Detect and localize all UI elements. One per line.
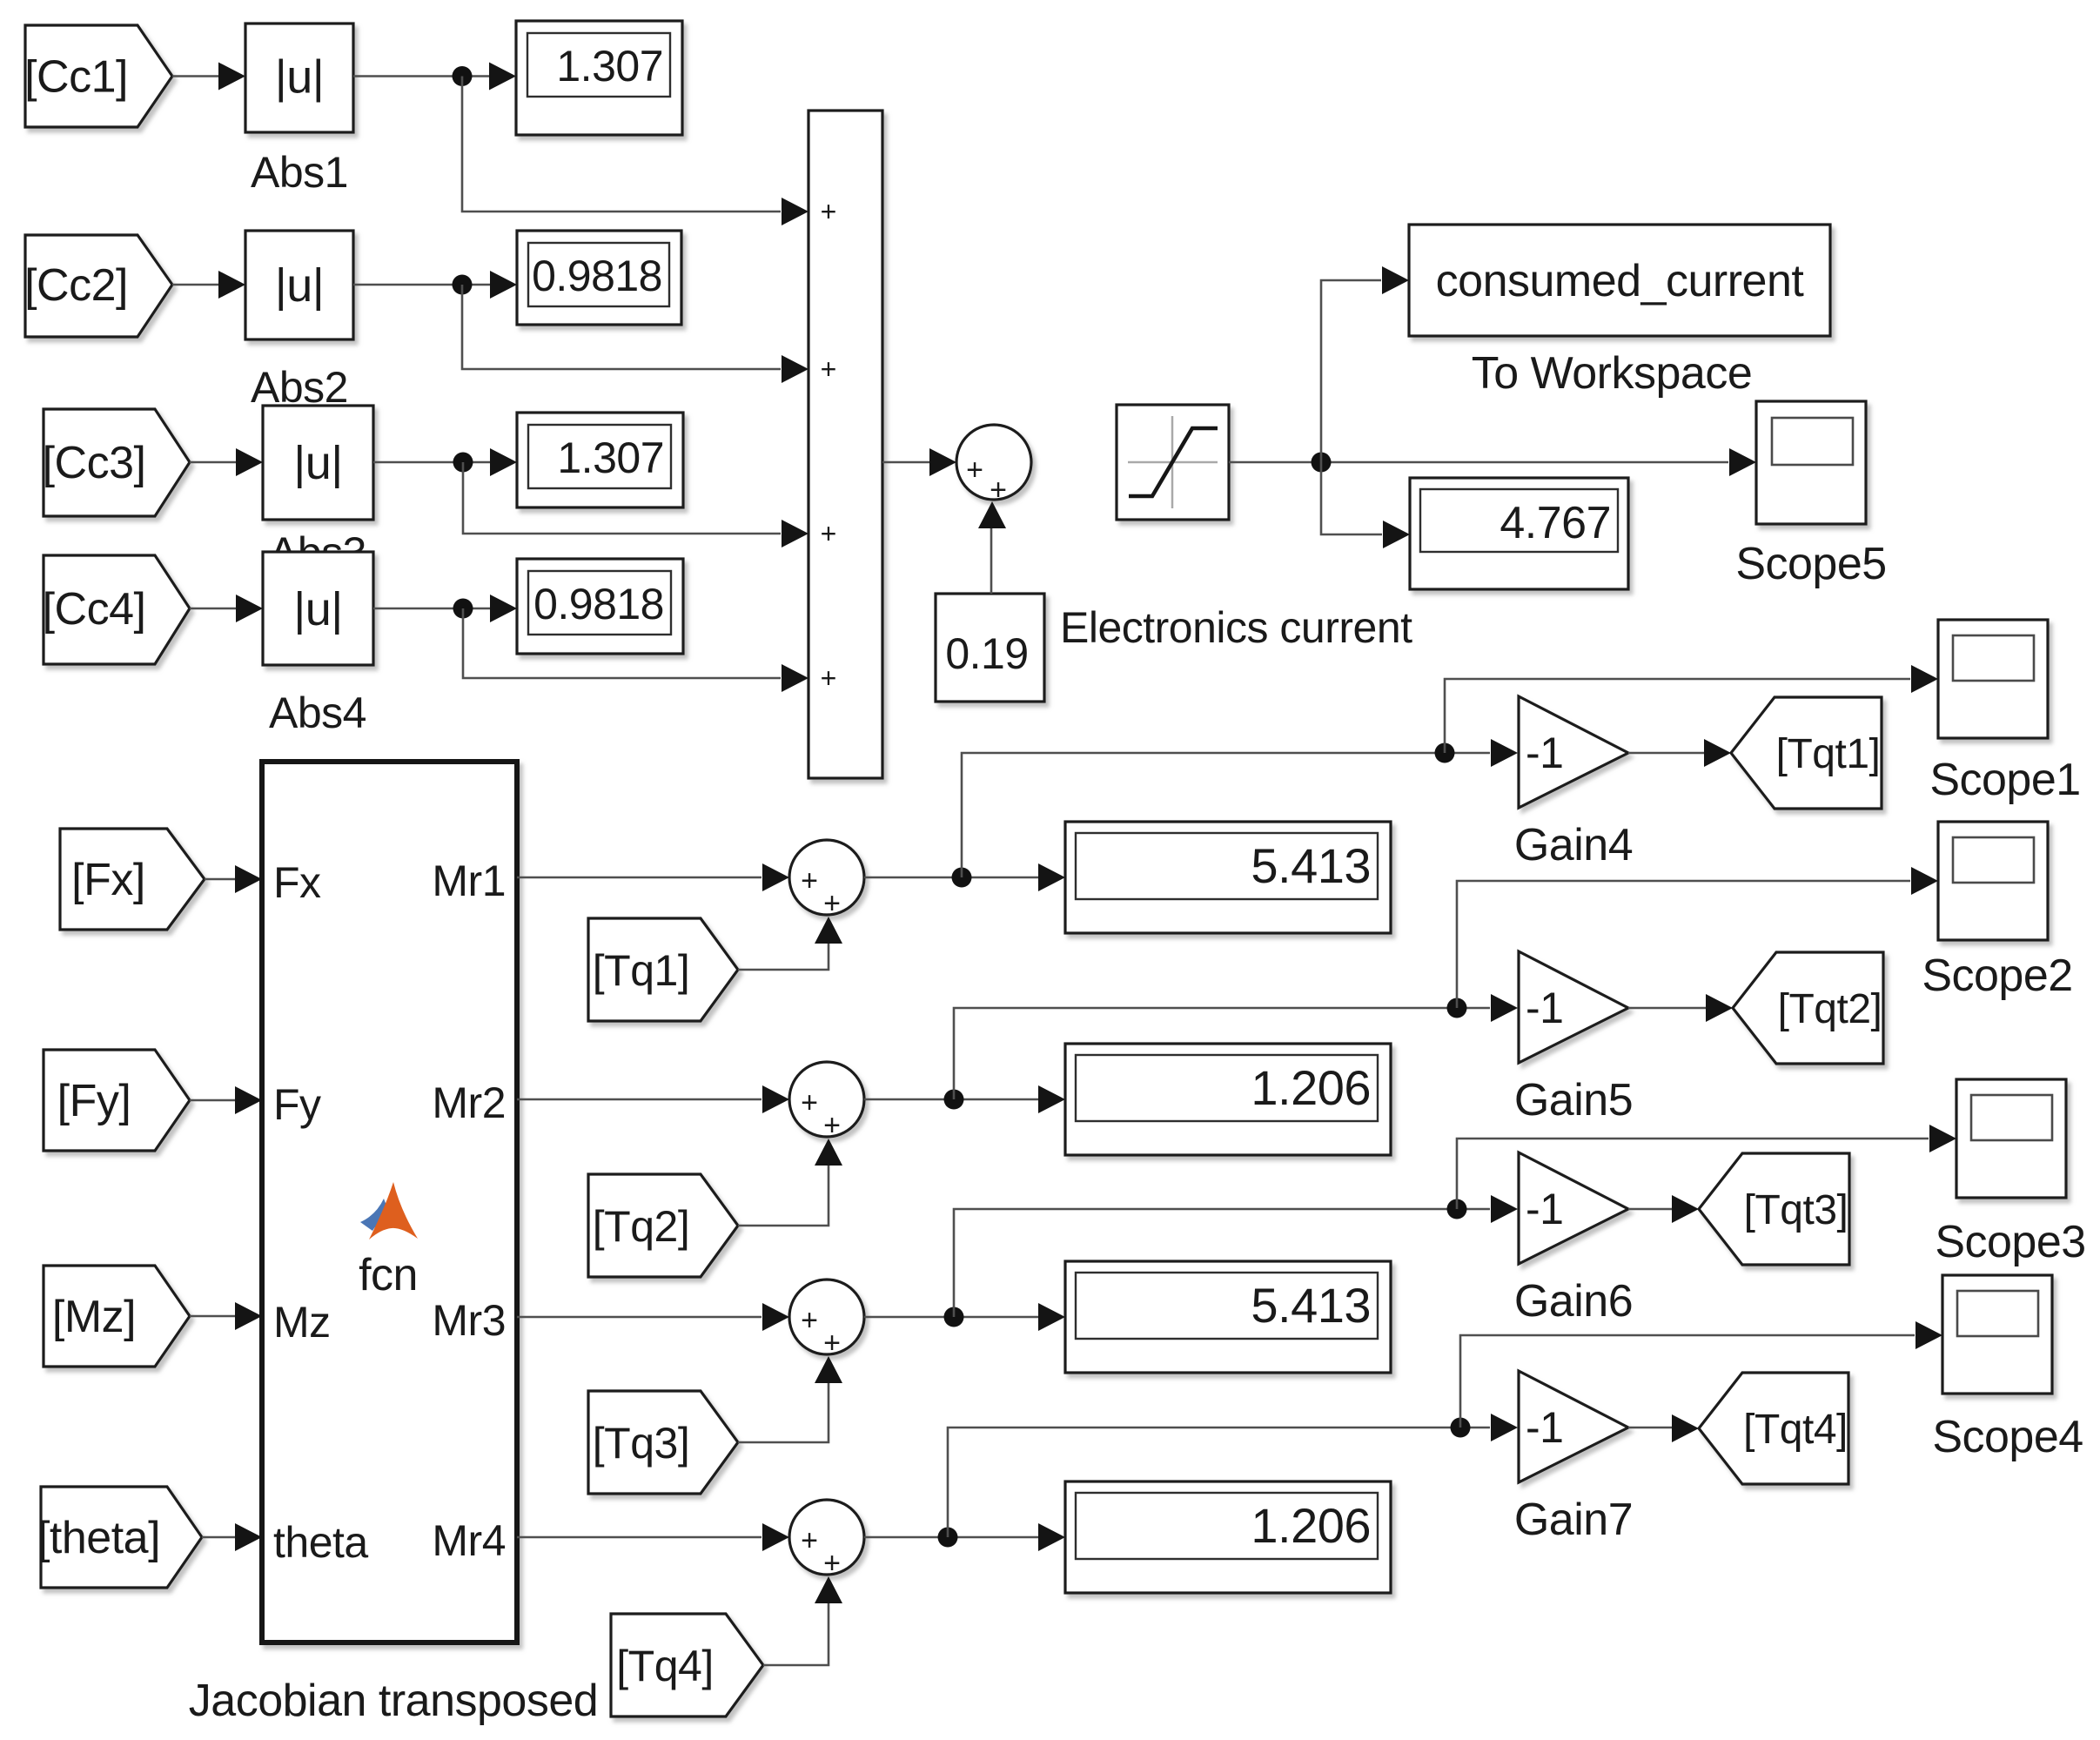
to-workspace block consumed_current — [1409, 225, 1830, 336]
sum circle (row [Tq2]) — [789, 1062, 864, 1142]
goto tag [Tqt3] — [1699, 1153, 1849, 1265]
from tag [Cc2] — [24, 235, 172, 337]
port label Fy — [273, 1080, 321, 1129]
label Abs2 — [251, 363, 348, 412]
svg-text:1.206: 1.206 — [1251, 1060, 1371, 1115]
svg-text:+: + — [801, 1304, 818, 1337]
from tag [Tq4] — [611, 1614, 763, 1716]
wire — [1628, 1195, 1699, 1223]
svg-text:Mr3: Mr3 — [432, 1296, 506, 1345]
from tag [Tq1] — [588, 918, 738, 1021]
svg-text:-1: -1 — [1526, 729, 1563, 777]
port label Mz — [273, 1298, 331, 1347]
gain Gain5 — [1519, 951, 1628, 1063]
abs block Abs2 — [245, 231, 353, 339]
sum circle (row [Tq3]) — [789, 1280, 864, 1360]
svg-text:Scope5: Scope5 — [1735, 539, 1886, 589]
wire — [1628, 739, 1731, 767]
wire — [738, 1139, 842, 1226]
svg-text:[Tqt3]: [Tqt3] — [1744, 1187, 1848, 1233]
wire — [353, 63, 516, 91]
svg-text:1.307: 1.307 — [557, 433, 664, 482]
svg-text:[Mz]: [Mz] — [52, 1292, 136, 1342]
svg-text:|u|: |u| — [293, 583, 343, 635]
display 1.206 — [1065, 1044, 1391, 1155]
svg-text:fcn: fcn — [359, 1250, 418, 1300]
svg-text:theta: theta — [273, 1518, 368, 1567]
svg-text:Fy: Fy — [273, 1080, 321, 1129]
svg-text:Scope1: Scope1 — [1929, 755, 2080, 805]
svg-text:5.413: 5.413 — [1251, 1278, 1371, 1333]
display 5.413 — [1065, 822, 1391, 933]
display 4.767 — [1410, 478, 1628, 589]
wire — [1445, 665, 1938, 753]
goto tag [Tqt1] — [1731, 697, 1882, 809]
svg-text:+: + — [801, 1086, 818, 1119]
wire — [373, 448, 517, 476]
svg-text:Scope3: Scope3 — [1935, 1217, 2085, 1267]
wire — [1628, 994, 1733, 1022]
label Abs4 — [269, 689, 366, 737]
svg-text:[Tqt4]: [Tqt4] — [1743, 1407, 1848, 1453]
svg-text:Jacobian transposed: Jacobian transposed — [189, 1676, 598, 1726]
label Scope4 — [1932, 1412, 2083, 1462]
goto tag [Tqt2] — [1733, 952, 1883, 1064]
wire — [1229, 448, 1756, 476]
svg-text:0.9818: 0.9818 — [532, 252, 662, 300]
svg-text:-1: -1 — [1526, 984, 1563, 1032]
wire — [190, 1086, 262, 1114]
label Gain6 — [1514, 1276, 1633, 1327]
wire — [978, 501, 1006, 594]
svg-text:[Tq4]: [Tq4] — [616, 1642, 713, 1690]
svg-text:-1: -1 — [1526, 1185, 1563, 1233]
svg-text:[Tqt1]: [Tqt1] — [1776, 731, 1881, 777]
wire — [1460, 1321, 1942, 1428]
wire — [948, 1414, 1518, 1537]
label Gain5 — [1514, 1075, 1633, 1125]
wire — [517, 1303, 789, 1331]
gain Gain4 — [1519, 696, 1628, 808]
display 1.307 — [517, 413, 683, 507]
wire — [1457, 867, 1938, 1008]
display 1.307 — [516, 21, 682, 135]
svg-text:|u|: |u| — [275, 51, 325, 104]
wire — [463, 462, 808, 548]
wire — [190, 448, 263, 476]
gain Gain6 — [1519, 1152, 1628, 1264]
svg-text:[Fy]: [Fy] — [57, 1076, 131, 1126]
svg-text:Gain4: Gain4 — [1514, 820, 1633, 870]
wire — [1321, 266, 1409, 462]
from tag [Mz] — [44, 1266, 190, 1367]
svg-text:+: + — [821, 353, 837, 385]
scope Scope3 — [1956, 1079, 2066, 1198]
svg-text:+: + — [801, 864, 818, 897]
goto tag [Tqt4] — [1699, 1373, 1848, 1484]
from tag [theta] — [37, 1487, 202, 1588]
wire — [463, 608, 808, 692]
display 5.413 — [1065, 1261, 1391, 1373]
display 0.9818 — [517, 559, 683, 654]
sum circle Add1 — [956, 425, 1031, 507]
svg-text:1.307: 1.307 — [556, 42, 663, 91]
from tag [Fx] — [60, 829, 205, 930]
label Scope5 — [1735, 539, 1886, 589]
svg-text:+: + — [801, 1524, 818, 1557]
svg-text:Abs1: Abs1 — [251, 148, 348, 197]
svg-text:Gain7: Gain7 — [1514, 1495, 1633, 1545]
svg-text:+: + — [823, 887, 841, 920]
wire — [462, 77, 808, 226]
svg-text:+: + — [823, 1109, 841, 1142]
from tag [Cc1] — [24, 25, 172, 127]
display 1.206 — [1065, 1481, 1391, 1593]
label Gain4 — [1514, 820, 1633, 870]
wire — [864, 1085, 1065, 1113]
label Electronics current — [1060, 603, 1412, 652]
wire — [954, 994, 1518, 1099]
svg-text:Electronics current: Electronics current — [1060, 603, 1412, 652]
wire — [1321, 462, 1410, 548]
svg-text:Scope4: Scope4 — [1932, 1412, 2083, 1462]
from tag [Cc4] — [43, 555, 190, 664]
svg-text:[Fx]: [Fx] — [71, 855, 145, 905]
svg-text:[Cc4]: [Cc4] — [43, 584, 146, 635]
sum circle (row [Tq4]) — [789, 1500, 864, 1580]
scope Scope5 — [1756, 401, 1866, 524]
label Scope3 — [1935, 1217, 2085, 1267]
wire — [864, 1523, 1065, 1551]
saturation block — [1117, 405, 1229, 520]
svg-text:-1: -1 — [1526, 1403, 1563, 1452]
svg-text:1.206: 1.206 — [1251, 1498, 1371, 1553]
svg-text:4.767: 4.767 — [1500, 498, 1611, 548]
svg-text:Gain5: Gain5 — [1514, 1075, 1633, 1125]
wire — [205, 865, 262, 893]
fcn logo — [360, 1182, 418, 1239]
svg-text:|u|: |u| — [275, 259, 325, 312]
wire — [763, 1576, 842, 1665]
label Scope2 — [1922, 951, 2072, 1001]
scope Scope1 — [1938, 620, 2048, 738]
port label Mr3 — [432, 1296, 506, 1345]
constant 0.19 — [936, 594, 1044, 702]
abs block Abs4 — [263, 552, 373, 665]
label Gain7 — [1514, 1495, 1633, 1545]
svg-text:0.19: 0.19 — [945, 629, 1028, 678]
from tag [Fy] — [44, 1050, 190, 1151]
label fcn — [359, 1250, 418, 1300]
svg-text:[Cc1]: [Cc1] — [24, 52, 128, 103]
svg-text:[Tqt2]: [Tqt2] — [1778, 986, 1882, 1032]
svg-text:Fx: Fx — [273, 858, 321, 907]
abs block Abs1 — [245, 24, 353, 132]
svg-text:+: + — [823, 1327, 841, 1360]
wire — [353, 271, 517, 299]
svg-text:Mr4: Mr4 — [432, 1516, 506, 1565]
svg-text:+: + — [966, 453, 983, 487]
label To Workspace — [1472, 348, 1753, 399]
svg-text:+: + — [823, 1547, 841, 1580]
wire — [1628, 1414, 1699, 1442]
svg-text:Gain6: Gain6 — [1514, 1276, 1633, 1327]
from tag [Tq2] — [588, 1174, 738, 1277]
label Abs3 — [269, 528, 366, 577]
abs block Abs3 — [263, 406, 373, 520]
svg-text:To Workspace: To Workspace — [1472, 348, 1753, 399]
label Scope1 — [1929, 755, 2080, 805]
scope Scope4 — [1942, 1275, 2052, 1394]
wire — [738, 1356, 842, 1442]
sum block Add (vertical) — [808, 111, 882, 778]
svg-text:|u|: |u| — [293, 437, 343, 489]
svg-text:5.413: 5.413 — [1251, 838, 1371, 893]
display 0.9818 — [517, 231, 681, 325]
wire — [190, 1302, 262, 1330]
gain Gain7 — [1519, 1371, 1628, 1482]
svg-text:0.9818: 0.9818 — [533, 580, 664, 628]
wire — [462, 285, 808, 383]
wire — [517, 1523, 789, 1551]
wire — [190, 595, 263, 622]
svg-text:Mr2: Mr2 — [432, 1078, 506, 1127]
wire — [962, 739, 1518, 877]
wire — [517, 863, 789, 891]
port label Mr4 — [432, 1516, 506, 1565]
svg-text:[Tq3]: [Tq3] — [593, 1419, 689, 1468]
port label theta — [273, 1518, 368, 1567]
matlab function block Jacobian transposed — [262, 762, 517, 1643]
wire — [738, 917, 842, 970]
sum circle (row [Tq1]) — [789, 840, 864, 920]
from tag [Cc3] — [43, 409, 190, 516]
svg-text:+: + — [821, 196, 837, 227]
port label Mr1 — [432, 857, 506, 905]
label Jacobian transposed — [189, 1676, 598, 1726]
wire — [202, 1523, 262, 1551]
svg-text:Scope2: Scope2 — [1922, 951, 2072, 1001]
svg-text:Mr1: Mr1 — [432, 857, 506, 905]
wire — [172, 271, 245, 299]
svg-text:consumed_current: consumed_current — [1436, 256, 1805, 306]
svg-text:[Cc3]: [Cc3] — [43, 438, 146, 488]
wire — [864, 1303, 1065, 1331]
wire — [172, 63, 245, 91]
wire — [882, 448, 956, 476]
from tag [Tq3] — [588, 1391, 738, 1494]
port label Fx — [273, 858, 321, 907]
svg-text:+: + — [821, 518, 837, 549]
wire — [517, 1085, 789, 1113]
svg-text:[Tq2]: [Tq2] — [593, 1202, 689, 1251]
wire — [373, 595, 517, 622]
wire — [954, 1195, 1518, 1317]
svg-text:+: + — [821, 662, 837, 694]
wire — [864, 863, 1065, 891]
wire — [1457, 1125, 1956, 1209]
svg-text:[Tq1]: [Tq1] — [593, 946, 689, 995]
svg-text:Abs4: Abs4 — [269, 689, 366, 737]
svg-text:[theta]: [theta] — [37, 1513, 160, 1563]
svg-text:Mz: Mz — [273, 1298, 331, 1347]
port label Mr2 — [432, 1078, 506, 1127]
scope Scope2 — [1938, 822, 2048, 940]
svg-text:[Cc2]: [Cc2] — [24, 260, 128, 311]
label Abs1 — [251, 148, 348, 197]
